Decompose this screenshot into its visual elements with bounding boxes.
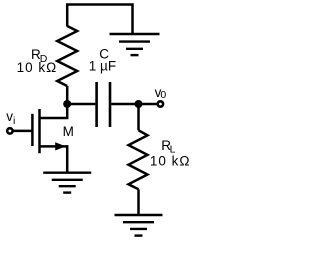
wire: drain node to capacitor left plate — [66, 103, 95, 106]
ground (below transistor source) — [43, 173, 91, 193]
wire: top rail with VDD stub (left corner above R_D to right corner) — [67, 5, 132, 34]
svg-text:0: 0 — [160, 89, 166, 101]
node: drain junction dot — [63, 100, 71, 108]
wire: R_D bottom lead to drain node — [66, 86, 69, 104]
capacitor C left plate — [95, 82, 98, 127]
wire: drain lead up to drain node — [40, 104, 67, 118]
terminal: v_o output circle — [158, 101, 163, 106]
terminal: v_i input circle — [7, 128, 12, 133]
ground (below R_L) — [115, 215, 163, 236]
svg-text:10 kΩ: 10 kΩ — [150, 153, 191, 168]
resistor R_D — [57, 26, 77, 86]
wire: output node down to R_L — [137, 104, 140, 130]
wire: v_i terminal to gate — [14, 130, 32, 133]
transistor M gate bar — [31, 114, 34, 146]
svg-text:i: i — [13, 115, 15, 127]
wire: R_L bottom lead to ground — [137, 189, 140, 215]
ground (top right, VDD return) — [110, 34, 160, 55]
svg-text:1 µF: 1 µF — [89, 59, 116, 74]
resistor R_L — [129, 130, 148, 189]
capacitor C right plate — [109, 82, 112, 127]
node: output junction dot — [135, 100, 143, 108]
transistor M channel bar — [38, 109, 41, 153]
transistor M source arrow — [55, 142, 66, 150]
wire: capacitor right plate to v_o terminal — [111, 103, 156, 106]
svg-text:M: M — [63, 124, 74, 139]
wire: source lead down to ground — [40, 146, 67, 172]
svg-text:10 kΩ: 10 kΩ — [17, 60, 58, 75]
